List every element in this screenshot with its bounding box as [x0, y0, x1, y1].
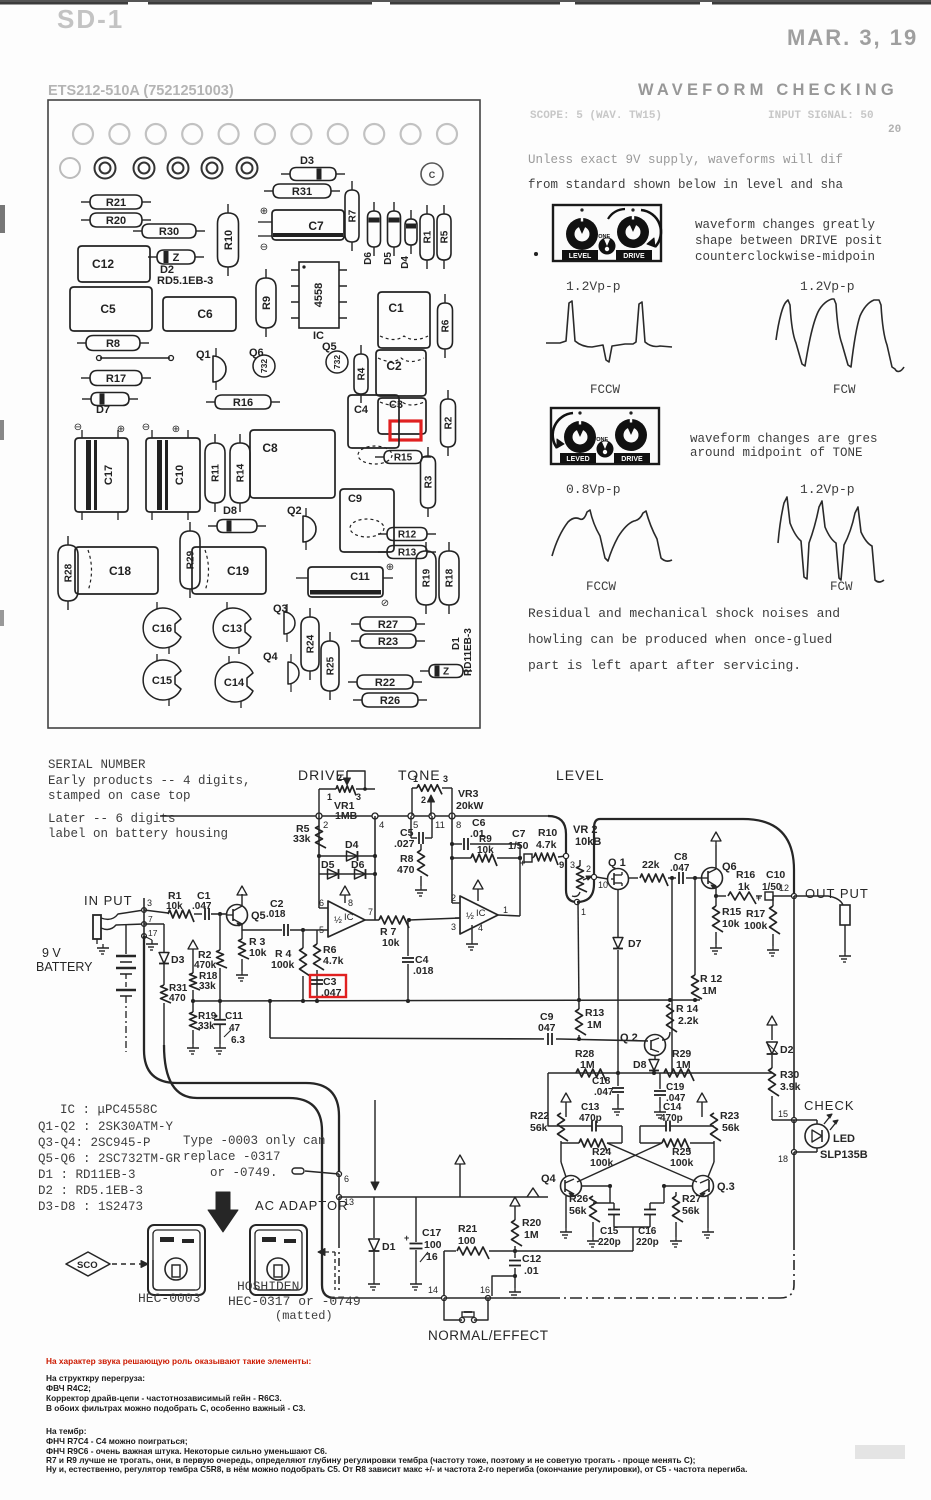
svg-text:½: ½ [334, 915, 342, 926]
svg-text:SCO: SCO [77, 1260, 98, 1271]
svg-text:NORMAL/EFFECT: NORMAL/EFFECT [428, 1328, 549, 1343]
svg-text:2: 2 [323, 820, 328, 831]
svg-text:C12: C12 [92, 257, 114, 271]
svg-text:TONE: TONE [593, 437, 609, 443]
svg-text:C6: C6 [197, 307, 213, 321]
svg-text:D1: D1 [382, 1241, 396, 1253]
svg-text:C12: C12 [522, 1253, 541, 1265]
svg-text:D7: D7 [628, 938, 642, 950]
svg-text:C17: C17 [422, 1227, 441, 1239]
svg-text:220p: 220p [598, 1237, 621, 1248]
svg-text:C11: C11 [350, 571, 370, 583]
svg-text:56k: 56k [569, 1205, 587, 1217]
svg-text:22k: 22k [642, 859, 660, 871]
svg-text:3: 3 [443, 774, 448, 784]
svg-text:1M: 1M [702, 985, 717, 997]
svg-text:1M: 1M [524, 1229, 539, 1241]
svg-text:1/50: 1/50 [508, 840, 529, 852]
svg-text:8: 8 [456, 820, 461, 831]
svg-text:FCW: FCW [830, 580, 853, 594]
svg-text:Q 1: Q 1 [608, 857, 626, 869]
svg-text:D2: D2 [780, 1044, 794, 1056]
svg-text:33k: 33k [293, 833, 311, 845]
svg-text:10k: 10k [249, 947, 267, 959]
svg-text:732: 732 [259, 359, 269, 373]
svg-text:R24: R24 [306, 634, 317, 653]
svg-text:R19: R19 [422, 568, 433, 587]
svg-text:R20: R20 [106, 215, 126, 227]
svg-text:R2: R2 [444, 416, 455, 429]
svg-text:7: 7 [148, 914, 153, 924]
svg-text:C13: C13 [581, 1102, 600, 1113]
svg-text:C2: C2 [386, 359, 402, 373]
svg-text:10k: 10k [382, 937, 400, 949]
svg-text:Q6: Q6 [722, 861, 737, 873]
svg-text:1: 1 [581, 907, 586, 917]
svg-text:R15: R15 [394, 453, 413, 464]
svg-text:replace -0317: replace -0317 [183, 1150, 281, 1164]
svg-text:CHECK: CHECK [804, 1098, 855, 1113]
svg-text:10k: 10k [722, 918, 740, 930]
svg-text:10kB: 10kB [575, 836, 601, 848]
svg-text:Ну и, естественно, регулятор т: Ну и, естественно, регулятор тембра С5R8… [46, 1464, 747, 1474]
svg-text:D6: D6 [351, 859, 365, 871]
svg-text:(matted): (matted) [275, 1309, 333, 1323]
svg-text:C16: C16 [152, 623, 172, 635]
svg-text:R20: R20 [522, 1217, 541, 1229]
svg-text:2: 2 [451, 893, 456, 903]
svg-text:R30: R30 [159, 226, 179, 238]
svg-text:IC : μPC4558C: IC : μPC4558C [60, 1103, 158, 1117]
svg-text:6: 6 [344, 1174, 349, 1184]
svg-text:C19: C19 [227, 564, 249, 578]
svg-text:56k: 56k [722, 1122, 740, 1134]
svg-text:.047: .047 [670, 863, 690, 874]
svg-text:D8: D8 [633, 1059, 647, 1071]
svg-text:R8: R8 [106, 338, 120, 350]
svg-text:.018: .018 [266, 909, 286, 920]
svg-text:R13: R13 [585, 1007, 604, 1019]
svg-text:12: 12 [779, 883, 789, 893]
svg-text:R9: R9 [479, 834, 492, 845]
svg-text:D6: D6 [363, 252, 374, 265]
svg-text:Early products -- 4 digits,: Early products -- 4 digits, [48, 774, 251, 788]
svg-text:4.7k: 4.7k [536, 839, 557, 851]
svg-text:.01: .01 [524, 1265, 539, 1277]
svg-text:20: 20 [888, 124, 901, 136]
svg-text:R21: R21 [458, 1223, 477, 1235]
svg-text:1MB: 1MB [335, 810, 358, 822]
svg-text:1.2Vp-p: 1.2Vp-p [800, 482, 855, 497]
svg-text:C10: C10 [174, 465, 186, 485]
svg-text:R26: R26 [380, 695, 400, 707]
svg-text:Q3: Q3 [273, 603, 288, 615]
svg-text:FCCW: FCCW [586, 580, 617, 594]
svg-text:IC: IC [344, 912, 354, 923]
svg-text:howling can be produced when o: howling can be produced when once-glued [528, 632, 832, 647]
svg-text:8: 8 [348, 898, 353, 908]
svg-text:R4: R4 [357, 367, 368, 380]
svg-text:D8: D8 [223, 505, 237, 517]
svg-text:⊖: ⊖ [142, 423, 150, 434]
svg-text:1M: 1M [587, 1019, 602, 1031]
svg-text:D3-D8 : 1S2473: D3-D8 : 1S2473 [38, 1200, 143, 1214]
svg-text:R13: R13 [398, 548, 417, 559]
svg-text:BATTERY: BATTERY [36, 960, 93, 974]
svg-text:C11: C11 [225, 1011, 243, 1022]
svg-text:3.9k: 3.9k [780, 1081, 801, 1093]
svg-text:Q1: Q1 [196, 349, 211, 361]
svg-text:4: 4 [379, 820, 384, 831]
svg-text:18: 18 [778, 1154, 788, 1164]
svg-text:2: 2 [586, 864, 591, 874]
svg-text:R30: R30 [780, 1069, 799, 1081]
svg-text:100k: 100k [670, 1157, 694, 1169]
svg-text:3: 3 [356, 792, 361, 802]
svg-text:Q4: Q4 [541, 1173, 557, 1185]
svg-text:label on battery housing: label on battery housing [48, 827, 228, 841]
svg-text:4.7k: 4.7k [323, 955, 344, 967]
svg-text:R22: R22 [375, 677, 395, 689]
svg-text:Q4: Q4 [263, 651, 279, 663]
svg-text:Residual and mechanical shock: Residual and mechanical shock noises and [528, 606, 840, 621]
svg-text:D3: D3 [171, 954, 185, 966]
svg-text:R12: R12 [398, 530, 417, 541]
svg-text:R16: R16 [736, 869, 755, 881]
svg-text:R22: R22 [530, 1110, 549, 1122]
svg-text:⊘: ⊘ [381, 599, 389, 610]
svg-text:ФНЧ R7C4 - С4 можно поиграться: ФНЧ R7C4 - С4 можно поиграться; [46, 1436, 188, 1446]
svg-text:.027: .027 [394, 838, 415, 850]
svg-text:⊖: ⊖ [260, 243, 268, 254]
svg-text:R10: R10 [223, 230, 235, 250]
svg-text:LED: LED [833, 1133, 855, 1145]
svg-text:7: 7 [368, 907, 373, 917]
svg-text:R25: R25 [326, 656, 337, 675]
svg-text:9: 9 [559, 860, 564, 871]
svg-text:DRIVE: DRIVE [623, 253, 645, 260]
svg-text:R26: R26 [569, 1193, 588, 1205]
svg-text:470p: 470p [579, 1113, 602, 1124]
svg-text:C4: C4 [354, 404, 369, 416]
svg-text:C14: C14 [663, 1102, 682, 1113]
svg-text:R3: R3 [424, 475, 435, 488]
svg-text:47: 47 [229, 1023, 241, 1034]
svg-text:3: 3 [147, 898, 152, 908]
svg-text:6.3: 6.3 [231, 1035, 245, 1046]
svg-text:1: 1 [413, 774, 418, 784]
svg-text:470k: 470k [194, 960, 217, 971]
svg-text:around midpoint of TONE: around midpoint of TONE [690, 446, 863, 460]
svg-text:Q5: Q5 [251, 910, 266, 922]
svg-text:D1 : RD11EB-3: D1 : RD11EB-3 [38, 1168, 136, 1182]
svg-text:R16: R16 [233, 397, 253, 409]
svg-text:17: 17 [148, 928, 158, 938]
svg-text:6: 6 [319, 898, 324, 908]
svg-text:Later -- 6 digits: Later -- 6 digits [48, 812, 176, 826]
svg-text:732: 732 [332, 355, 342, 369]
svg-text:R7: R7 [348, 209, 359, 222]
svg-text:C19: C19 [666, 1082, 685, 1093]
svg-text:2: 2 [337, 773, 342, 783]
svg-text:SERIAL NUMBER: SERIAL NUMBER [48, 758, 146, 772]
svg-text:R18: R18 [445, 568, 456, 587]
svg-text:or -0749.: or -0749. [210, 1166, 278, 1180]
svg-text:C7: C7 [308, 219, 324, 233]
svg-text:D2 : RD5.1EB-3: D2 : RD5.1EB-3 [38, 1184, 143, 1198]
svg-text:waveform changes greatly: waveform changes greatly [695, 218, 876, 232]
svg-text:D4: D4 [400, 256, 411, 269]
svg-text:R21: R21 [106, 197, 126, 209]
svg-text:56k: 56k [530, 1122, 548, 1134]
svg-text:R1: R1 [423, 230, 434, 243]
svg-text:R10: R10 [538, 827, 557, 839]
svg-text:part is left apart after servi: part is left apart after servicing. [528, 658, 801, 673]
svg-text:Q5-Q6 : 2SC732TM-GR: Q5-Q6 : 2SC732TM-GR [38, 1152, 181, 1166]
svg-text:⊕: ⊕ [172, 425, 180, 436]
svg-text:5: 5 [413, 820, 418, 831]
svg-text:1k: 1k [738, 881, 750, 893]
svg-text:4558: 4558 [313, 283, 325, 307]
svg-text:Z: Z [173, 252, 180, 264]
svg-text:FCW: FCW [833, 383, 856, 397]
svg-text:R14: R14 [236, 463, 247, 482]
svg-text:WAVEFORM CHECKING: WAVEFORM CHECKING [638, 81, 898, 99]
svg-text:100: 100 [458, 1235, 476, 1247]
svg-text:.018: .018 [413, 965, 434, 977]
svg-text:1.2Vp-p: 1.2Vp-p [800, 279, 855, 294]
svg-text:R23: R23 [378, 636, 398, 648]
svg-text:LEVEL: LEVEL [556, 767, 605, 783]
svg-text:На характер звука решающую рол: На характер звука решающую роль оказываю… [46, 1356, 311, 1366]
svg-text:C17: C17 [103, 465, 115, 485]
svg-text:Z: Z [443, 667, 449, 678]
svg-text:C: C [429, 170, 436, 180]
svg-text:HEC-0317 or -0749: HEC-0317 or -0749 [228, 1294, 361, 1309]
svg-text:9 V: 9 V [42, 946, 61, 960]
svg-text:Unless exact 9V supply, wavefo: Unless exact 9V supply, waveforms will d… [528, 153, 843, 167]
svg-text:R11: R11 [211, 464, 222, 482]
svg-text:10: 10 [598, 880, 608, 890]
svg-text:56k: 56k [682, 1205, 700, 1217]
svg-text:2.2k: 2.2k [678, 1015, 699, 1027]
svg-text:C1: C1 [388, 301, 404, 315]
svg-text:R17: R17 [746, 908, 765, 920]
svg-text:LEVEL: LEVEL [569, 253, 592, 260]
svg-text:16: 16 [480, 1285, 490, 1295]
svg-text:TONE: TONE [595, 234, 611, 240]
svg-text:waveform changes are gres: waveform changes are gres [690, 432, 878, 446]
svg-text:Type -0003 only can: Type -0003 only can [183, 1134, 326, 1148]
svg-text:100: 100 [424, 1239, 442, 1251]
svg-text:33k: 33k [198, 1021, 215, 1032]
svg-text:Q 2: Q 2 [620, 1032, 638, 1044]
svg-text:counterclockwise-midpoin: counterclockwise-midpoin [695, 250, 875, 264]
svg-text:R17: R17 [106, 373, 126, 385]
svg-text:C18: C18 [109, 564, 131, 578]
svg-text:R5: R5 [440, 230, 451, 243]
svg-text:На тембр:: На тембр: [46, 1426, 86, 1436]
svg-text:D5: D5 [383, 252, 394, 265]
svg-text:D7: D7 [96, 404, 110, 416]
svg-text:Q3-Q4: 2SC945-P: Q3-Q4: 2SC945-P [38, 1136, 151, 1150]
svg-text:Корректор драйв-цепи - частотн: Корректор драйв-цепи - частотнозависимый… [46, 1393, 282, 1403]
svg-text:⊕: ⊕ [386, 563, 394, 574]
svg-text:C8: C8 [674, 851, 688, 863]
svg-text:.047: .047 [594, 1087, 614, 1098]
svg-text:C3: C3 [389, 399, 403, 411]
svg-text:C10: C10 [766, 869, 785, 881]
svg-text:D4: D4 [345, 839, 359, 851]
svg-text:C7: C7 [512, 828, 526, 840]
svg-text:3: 3 [451, 922, 456, 932]
svg-text:RD11EB-3: RD11EB-3 [463, 628, 474, 676]
svg-text:R28: R28 [64, 563, 75, 582]
svg-text:FCCW: FCCW [590, 383, 621, 397]
svg-text:D5: D5 [321, 859, 335, 871]
svg-text:DRIVE: DRIVE [621, 456, 643, 463]
svg-text:220p: 220p [636, 1237, 659, 1248]
svg-text:R29: R29 [186, 550, 197, 569]
svg-text:R27: R27 [378, 619, 398, 631]
svg-text:Q1-Q2 : 2SK30ATM-Y: Q1-Q2 : 2SK30ATM-Y [38, 1120, 174, 1134]
svg-text:C9: C9 [348, 493, 362, 505]
svg-text:⊕: ⊕ [260, 207, 268, 218]
svg-text:C13: C13 [222, 623, 242, 635]
svg-text:C15: C15 [152, 675, 172, 687]
svg-text:VR3: VR3 [458, 788, 479, 800]
svg-text:ФВЧ R4C2;: ФВЧ R4C2; [46, 1383, 91, 1393]
svg-text:D1: D1 [451, 637, 462, 650]
svg-text:470: 470 [397, 864, 415, 876]
svg-text:½: ½ [466, 911, 474, 922]
svg-text:C5: C5 [100, 302, 116, 316]
svg-text:INPUT SIGNAL: 50: INPUT SIGNAL: 50 [768, 110, 874, 122]
svg-text:15: 15 [778, 1109, 788, 1119]
svg-text:0.8Vp-p: 0.8Vp-p [566, 482, 621, 497]
svg-text:1.2Vp-p: 1.2Vp-p [566, 279, 621, 294]
svg-text:10k: 10k [477, 845, 494, 856]
svg-text:ETS212-510A (7521251003): ETS212-510A (7521251003) [48, 83, 234, 99]
svg-text:470p: 470p [660, 1113, 683, 1124]
svg-text:14: 14 [428, 1285, 438, 1295]
svg-text:IC: IC [476, 908, 486, 919]
svg-text:Q2: Q2 [287, 505, 302, 517]
svg-text:R 14: R 14 [676, 1003, 698, 1015]
svg-text:HEC-0003: HEC-0003 [138, 1291, 200, 1306]
svg-text:from standard shown below in l: from standard shown below in level and s… [528, 178, 844, 192]
svg-text:shape between DRIVE posit: shape between DRIVE posit [695, 234, 883, 248]
svg-text:R6: R6 [441, 319, 452, 332]
svg-text:Q.3: Q.3 [717, 1181, 735, 1193]
svg-text:20kW: 20kW [456, 800, 484, 812]
svg-text:470: 470 [169, 993, 186, 1004]
svg-text:На структкру перегруза:: На структкру перегруза: [46, 1373, 145, 1383]
svg-text:⊖: ⊖ [74, 423, 82, 434]
svg-text:LEVED: LEVED [566, 456, 589, 463]
svg-text:TONE: TONE [398, 767, 441, 783]
svg-text:SCOPE: 5 (WAV. TW15): SCOPE: 5 (WAV. TW15) [530, 110, 662, 122]
svg-text:R31: R31 [292, 186, 312, 198]
svg-text:IN PUT: IN PUT [84, 893, 133, 908]
svg-text:4: 4 [478, 923, 483, 933]
svg-text:+: + [756, 893, 761, 903]
svg-text:R9: R9 [261, 296, 273, 310]
svg-text:2: 2 [421, 795, 426, 805]
svg-text:1: 1 [327, 792, 332, 802]
svg-text:HOSHIDEN: HOSHIDEN [237, 1279, 299, 1294]
svg-text:R27: R27 [682, 1193, 701, 1205]
svg-text:RD5.1EB-3: RD5.1EB-3 [157, 275, 213, 287]
svg-text:R15: R15 [722, 906, 741, 918]
svg-text:В обоих фильтрах можно подобра: В обоих фильтрах можно подобрать С, особ… [46, 1403, 305, 1413]
svg-text:AC ADAPTOR: AC ADAPTOR [255, 1198, 349, 1213]
svg-text:C14: C14 [224, 677, 245, 689]
svg-text:33k: 33k [199, 981, 216, 992]
svg-text:11: 11 [435, 820, 445, 831]
svg-text:D3: D3 [300, 155, 314, 167]
svg-text:100k: 100k [744, 920, 768, 932]
svg-text:1: 1 [503, 905, 508, 915]
svg-text:MAR. 3, 19: MAR. 3, 19 [787, 25, 918, 50]
svg-text:SLP135B: SLP135B [820, 1149, 868, 1161]
svg-text:100k: 100k [271, 959, 295, 971]
svg-text:stamped on case top: stamped on case top [48, 789, 191, 803]
svg-text:3: 3 [570, 860, 575, 870]
svg-text:R 12: R 12 [700, 973, 722, 985]
svg-text:SD-1: SD-1 [57, 4, 124, 34]
svg-text:R23: R23 [720, 1110, 739, 1122]
svg-text:+: + [404, 1233, 409, 1243]
svg-text:047: 047 [538, 1022, 556, 1034]
svg-text:C18: C18 [592, 1076, 611, 1087]
svg-text:C8: C8 [262, 441, 278, 455]
